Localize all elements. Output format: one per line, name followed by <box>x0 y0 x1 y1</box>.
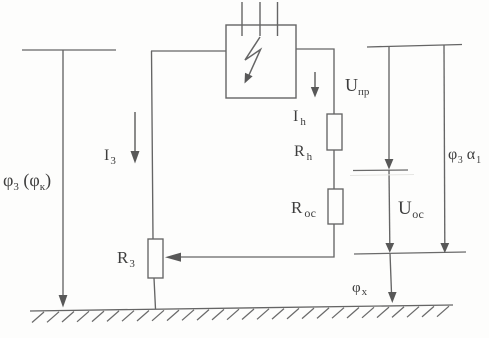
wire: from equipment case left side to grounding conductor <box>151 50 226 52</box>
wire: from Roc down and left toward Rz <box>181 224 334 257</box>
node: faint scan ghost under tick mark <box>350 175 414 176</box>
ground: earth hatching <box>32 306 449 322</box>
arrow: pointer onto Rz (left-pointing arrowhead) <box>165 253 181 262</box>
node: phi_z potential arrow (left vertical measuring line to ground) <box>59 50 68 308</box>
wire: right potential reference bus (top-right horizontal) <box>367 45 462 48</box>
resistor Roc (footing resistance) <box>328 189 343 224</box>
ground: earth surface line <box>30 305 453 311</box>
fault: lightning arrow inside case <box>245 37 261 84</box>
equipment case (box with fault) <box>226 25 296 98</box>
wire: phase lead 1 <box>241 2 243 36</box>
svg-text:R3: R3 <box>117 248 135 270</box>
wire: from case right side to Rh branch <box>296 49 334 114</box>
wire: phase lead 2 <box>259 2 261 36</box>
wire: between Rh and Roc <box>333 150 335 189</box>
svg-text:Uос: Uос <box>398 198 424 221</box>
svg-text:φ3 (φк): φ3 (φк) <box>3 170 51 193</box>
svg-text:Ih: Ih <box>293 108 306 128</box>
node: tick mark at head level (upper short horizontal) <box>353 169 408 172</box>
node: tick mark at feet level (lower long horizontal) <box>354 252 466 254</box>
wire: phase lead 3 <box>277 2 279 36</box>
svg-text:I3: I3 <box>104 147 116 167</box>
arrow: touch current direction (beside Upr) <box>311 72 319 98</box>
svg-text:φ3α1: φ3α1 <box>448 146 481 166</box>
resistor Rh (human body resistance) <box>327 114 342 150</box>
arrow: I3 current direction <box>131 112 140 164</box>
resistor Rz (grounding resistance) <box>148 239 163 278</box>
wire: grounding down-conductor (vertical to Rz and earth) <box>152 51 156 309</box>
svg-text:φx: φx <box>352 280 368 298</box>
svg-text:Uпр: Uпр <box>345 75 370 98</box>
wire: left potential reference bus (top-left horizontal) <box>22 49 116 51</box>
node: Uoc measuring line (vertical with arrows at x=389) <box>385 47 397 304</box>
svg-text:Rос: Rос <box>291 198 316 220</box>
node: phi_z alpha1 potential arrow (right vertical measuring line) <box>440 45 449 253</box>
svg-text:Rh: Rh <box>294 143 313 163</box>
